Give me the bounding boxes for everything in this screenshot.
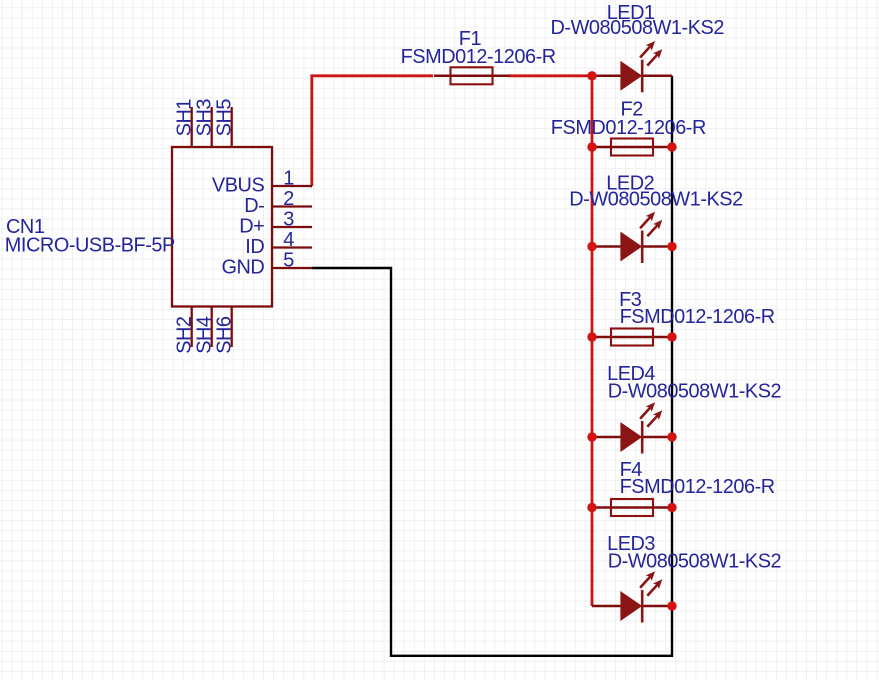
svg-text:1: 1	[283, 168, 294, 190]
svg-text:3: 3	[283, 209, 294, 231]
svg-text:FSMD012-1206-R: FSMD012-1206-R	[620, 476, 775, 498]
svg-text:D-W080508W1-KS2: D-W080508W1-KS2	[608, 551, 782, 573]
svg-text:FSMD012-1206-R: FSMD012-1206-R	[401, 46, 556, 68]
svg-text:FSMD012-1206-R: FSMD012-1206-R	[620, 306, 775, 328]
svg-text:SH5: SH5	[214, 99, 236, 137]
svg-text:D-W080508W1-KS2: D-W080508W1-KS2	[569, 188, 743, 210]
svg-text:D-W080508W1-KS2: D-W080508W1-KS2	[551, 17, 725, 39]
svg-text:MICRO-USB-BF-5P: MICRO-USB-BF-5P	[5, 235, 175, 257]
svg-text:GND: GND	[221, 256, 264, 278]
svg-text:4: 4	[283, 229, 294, 251]
svg-text:D+: D+	[239, 215, 264, 237]
svg-text:ID: ID	[245, 236, 264, 258]
svg-text:FSMD012-1206-R: FSMD012-1206-R	[551, 117, 706, 139]
svg-text:SH3: SH3	[194, 99, 216, 137]
svg-text:SH2: SH2	[174, 316, 196, 354]
svg-text:SH4: SH4	[194, 316, 216, 354]
svg-text:5: 5	[283, 250, 294, 272]
svg-text:SH1: SH1	[174, 99, 196, 137]
svg-text:SH6: SH6	[214, 316, 236, 354]
svg-text:D-W080508W1-KS2: D-W080508W1-KS2	[608, 381, 782, 403]
svg-text:VBUS: VBUS	[212, 174, 265, 196]
svg-text:2: 2	[283, 188, 294, 210]
svg-text:D-: D-	[244, 195, 264, 217]
